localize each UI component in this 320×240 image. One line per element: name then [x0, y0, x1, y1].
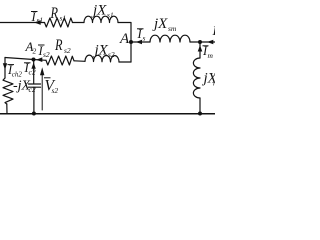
wire node A to jXsm: [131, 41, 150, 43]
svg-text:s2: s2: [52, 86, 59, 95]
svg-text:s1: s1: [37, 16, 44, 25]
svg-text:I: I: [212, 23, 216, 38]
wire load resistor to bottom rail: [6, 104, 8, 114]
wire row2 left corner down: [4, 58, 6, 79]
svg-text:m: m: [208, 51, 214, 60]
capacitor -jXc2 top plate: [29, 83, 41, 85]
arrowhead current at right edge: [207, 40, 213, 45]
arrowhead current Ich2 down: [3, 63, 7, 69]
svg-text:s2: s2: [108, 50, 115, 59]
svg-text:c2: c2: [29, 85, 36, 94]
bottom rail: [0, 113, 215, 115]
node A junction dot: [129, 40, 133, 44]
wire Rs2 to jXs2: [74, 60, 85, 63]
svg-text:A: A: [119, 31, 130, 47]
resistor Rs1: [45, 18, 73, 27]
svg-text:jX: jX: [91, 3, 107, 19]
svg-text:R: R: [54, 37, 63, 54]
wire magnetizing branch vertical upper: [199, 42, 201, 58]
svg-text:c2: c2: [29, 68, 36, 77]
junction dot bottom of capacitor branch: [32, 112, 36, 116]
junction dot bottom of magnetizing branch: [198, 112, 202, 116]
arrowhead current Is2: [36, 57, 42, 62]
svg-text:s: s: [143, 34, 146, 43]
inductor jXm: [193, 58, 200, 98]
svg-text:s1: s1: [60, 14, 67, 23]
svg-text:jX: jX: [152, 16, 168, 32]
resistor left load: [3, 78, 13, 104]
wire capacitor branch upper: [33, 60, 35, 84]
svg-text:sm: sm: [168, 24, 177, 33]
wire jXsm to right edge: [190, 41, 215, 43]
arrowhead current Im up: [198, 45, 203, 51]
wire jXm to bottom rail: [199, 98, 201, 114]
resistor Rs2: [46, 56, 74, 65]
wire row2 horizontal left: [5, 58, 46, 61]
svg-text:s2: s2: [64, 46, 71, 55]
wire capacitor to bottom rail: [33, 87, 35, 113]
wire top-left from edge to Rs1: [0, 22, 45, 24]
svg-text:jX: jX: [93, 43, 109, 59]
arrowhead current Ic2 up: [31, 62, 35, 68]
node A2 junction dot: [32, 58, 36, 62]
inductor jXs2: [85, 55, 119, 62]
svg-text:m: m: [213, 79, 215, 88]
inductor jXs1: [84, 16, 118, 22]
svg-text:R: R: [50, 5, 59, 22]
wire jXs1 to corner and down to node A and row2 corner: [118, 23, 131, 63]
capacitor -jXc2 bottom plate: [29, 86, 41, 88]
arrowhead current Is at node A: [136, 40, 142, 45]
svg-text:ch2: ch2: [12, 71, 23, 79]
inductor jXsm: [150, 35, 190, 42]
svg-text:2: 2: [33, 47, 37, 56]
junction dot top of magnetizing branch: [198, 40, 202, 44]
svg-text:s1: s1: [107, 11, 114, 20]
wire between Rs1 and jXs1: [73, 22, 85, 24]
voltage arrow line Vs2: [41, 75, 43, 111]
svg-text:s2: s2: [43, 50, 50, 59]
arrowhead voltage Vs2 up: [40, 67, 44, 75]
wire jXs2 to corner: [119, 61, 131, 63]
arrowhead current Is1: [34, 20, 41, 25]
